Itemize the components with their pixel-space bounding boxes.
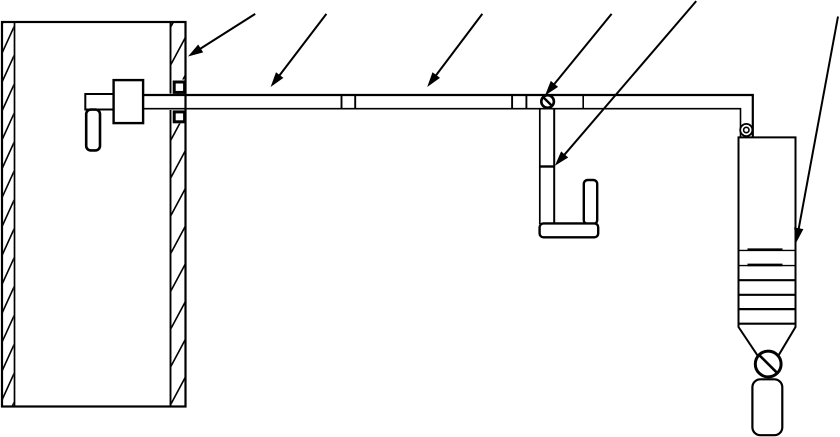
leader arrow 5 to drop pipe union: [555, 1, 696, 166]
leader arrow 3 to pipe middle section: [427, 14, 482, 87]
wall outer outline: [2, 22, 186, 407]
pipe coupling joint 2 left line: [511, 95, 513, 109]
vertical drop pipe left line: [539, 109, 541, 224]
valve handle cylinder below appliance: [752, 379, 782, 435]
meter bracket vertical lug: [584, 180, 597, 224]
wall right strip hatching: [171, 0, 186, 405]
stop-valve body in wall: [114, 80, 144, 123]
appliance cock valve circle with slash: [755, 351, 781, 377]
pipe coupling joint 2 right line: [525, 95, 527, 109]
wall right inner face line: [170, 22, 172, 407]
appliance rib line 5: [739, 308, 796, 310]
appliance rib line 3: [739, 279, 796, 281]
leader arrow 4 to tee cock valve: [545, 14, 612, 96]
lower wall-sleeve flange: [174, 112, 184, 122]
union joint on drop pipe: [540, 165, 554, 167]
wall left strip hatching: [2, 0, 15, 429]
tee cock valve circle: [541, 95, 554, 108]
union nut double circle at appliance inlet: [740, 124, 752, 136]
appliance rib line 1 (thin with heavy centre): [739, 249, 796, 252]
appliance (water heater) body outline: [739, 137, 796, 360]
leader arrow 1 to wall sleeve: [188, 14, 255, 57]
upper wall-sleeve flange: [174, 82, 184, 92]
vertical drop pipe right line: [553, 109, 555, 224]
pipe joint line right of tee: [582, 95, 584, 109]
horizontal gas pipe top line with right elbow: [143, 95, 753, 137]
appliance rib line 4: [739, 294, 796, 296]
appliance rib line 2 (thin with heavy centre): [739, 264, 796, 267]
appliance rib line 6: [739, 323, 796, 325]
meter bracket bottom bar: [540, 223, 599, 237]
horizontal gas pipe bottom line with inner elbow: [143, 109, 740, 138]
pipe coupling joint 1 right line: [354, 95, 356, 109]
pipe stub left of stop valve: [85, 94, 113, 110]
wall left inner face line: [14, 22, 16, 407]
pipe coupling joint 1 left line: [341, 95, 343, 109]
leader arrow 6 to appliance body: [794, 17, 838, 244]
leader arrow 2 to pipe left section: [271, 14, 327, 87]
stop-valve handle: [86, 110, 100, 151]
